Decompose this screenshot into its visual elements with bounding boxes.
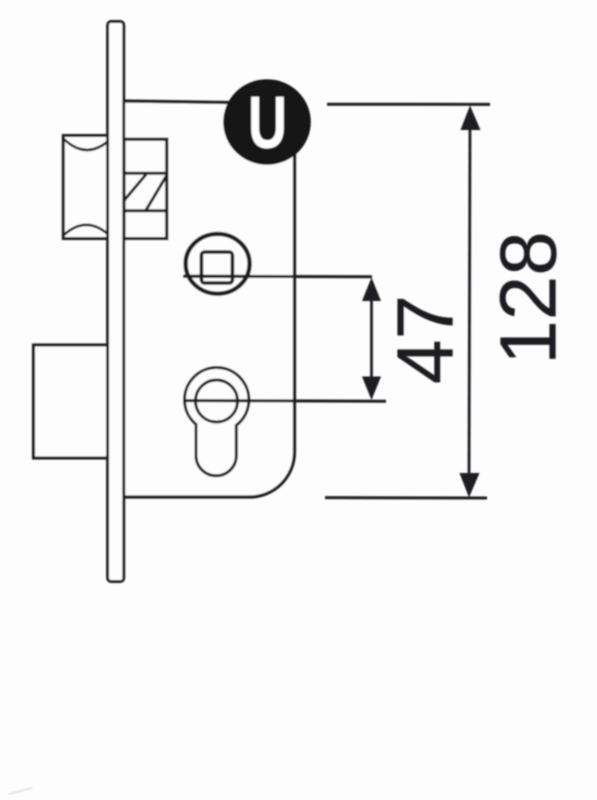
dimension line 47: [370, 295, 373, 383]
U badge: [223, 79, 311, 165]
arrowhead 128 bottom: [460, 473, 480, 498]
extension line 47 top (through follower): [183, 275, 372, 279]
lock case body: [123, 101, 295, 497]
dimension line 128: [469, 124, 470, 478]
extension line bottom (128 dim): [325, 496, 487, 499]
latch bolt tail (inside case): [124, 139, 167, 238]
follower (square spindle hole): [183, 234, 250, 294]
svg-text:128: 128: [484, 231, 573, 364]
euro cylinder hole: [185, 368, 249, 476]
svg-text:U: U: [248, 80, 287, 163]
arrowhead 47 top: [362, 278, 381, 302]
deadbolt: [34, 345, 110, 458]
svg-text:47: 47: [381, 295, 470, 384]
faint scan smudge bottom-left: [9, 788, 32, 794]
extension line 47 bottom (through cylinder): [186, 399, 386, 403]
latch bolt head: [63, 136, 110, 239]
latch hatch band: [122, 173, 167, 211]
faceplate: [108, 22, 124, 582]
arrowhead 128 top: [461, 106, 481, 131]
extension line top (128 dim, collinear with case top): [267, 102, 294, 105]
arrowhead 47 bottom: [362, 377, 381, 401]
